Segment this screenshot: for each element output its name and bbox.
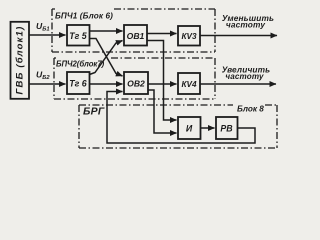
block KV4 (178, 73, 200, 94)
svg-text:БРГ: БРГ (83, 107, 105, 118)
svg-text:КV3: КV3 (181, 32, 196, 41)
block I (178, 117, 201, 139)
wire Ub1 (29, 34, 66, 36)
svg-text:И: И (186, 124, 193, 134)
wire Tg6 to OV1 (crossing diagonal) (90, 41, 123, 75)
wire KV4 output (increase frequency) (200, 83, 276, 85)
wire OV2 to I (down) (148, 90, 177, 133)
block KV3 (178, 26, 200, 46)
wire Tg5 to OV2 (crossing diagonal) (90, 39, 123, 77)
svg-text:КV4: КV4 (181, 80, 196, 89)
wire Ub2 (29, 83, 66, 85)
svg-text:ОВ2: ОВ2 (127, 79, 145, 89)
block GVB (blok1) (11, 22, 30, 99)
wire I to RV (201, 127, 215, 129)
svg-text:ГВБ (блок1): ГВБ (блок1) (15, 25, 26, 94)
wire OV1 to I (down) (147, 41, 177, 121)
svg-text:частоту: частоту (226, 20, 265, 30)
block RV (216, 117, 238, 139)
wire Tg6 to OV2 (90, 83, 123, 85)
wire KV3 output (decrease frequency) (200, 35, 277, 37)
svg-text:Блок 8: Блок 8 (237, 105, 264, 114)
dashed box BRG / Blok 8 (79, 105, 277, 148)
block Tg6 (67, 72, 90, 94)
svg-text:ОВ1: ОВ1 (127, 31, 145, 41)
svg-text:Тг 6: Тг 6 (69, 79, 87, 89)
svg-text:БПЧ2(блок7): БПЧ2(блок7) (56, 60, 105, 69)
svg-text:РВ: РВ (220, 124, 233, 134)
wire OV2 to KV4 (148, 83, 177, 85)
svg-text:частоту: частоту (225, 72, 264, 81)
block OV1 (124, 25, 147, 46)
dashed box BPCH2 (blok7) (54, 58, 215, 99)
dashed box BPCH1 (Blok 6) (52, 9, 215, 52)
wire RV feedback to OV2 (107, 92, 255, 144)
wire OV1 to KV3 (147, 33, 177, 35)
svg-text:БПЧ1 (Блок 6): БПЧ1 (Блок 6) (55, 12, 113, 21)
block Tg5 (67, 25, 90, 46)
wire Tg5 to OV1 (90, 30, 123, 32)
block OV2 (124, 72, 148, 94)
svg-text:Тг 5: Тг 5 (69, 31, 87, 41)
